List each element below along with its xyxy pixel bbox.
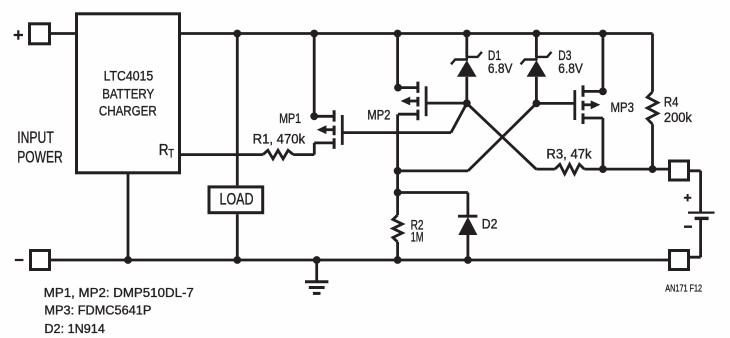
node rail-mp3: [599, 30, 607, 38]
wire bottom rail: [51, 259, 668, 262]
terminal box input +: [30, 24, 50, 44]
node rail-ground: [313, 256, 321, 264]
node r3-mp3: [599, 165, 607, 173]
svg-text:CHARGER: CHARGER: [99, 103, 157, 118]
svg-text:LOAD: LOAD: [220, 190, 254, 209]
svg-text:6.8V: 6.8V: [558, 60, 583, 76]
svg-text:LTC4015: LTC4015: [104, 68, 154, 83]
terminal box battery +: [670, 161, 689, 180]
wire top rail: [181, 32, 653, 35]
wire diagonal D1 node to R3: [467, 103, 537, 169]
LOAD block: [209, 187, 263, 213]
notes: [44, 285, 194, 336]
wire MP2 gate to D1 node: [427, 102, 466, 105]
node mp1 source: [310, 112, 318, 120]
wire rail to MP3 source: [602, 34, 605, 92]
LTC4015 charger block U1: [77, 14, 180, 173]
plus sign battery: [684, 194, 691, 201]
transistor MP2: [398, 82, 426, 121]
node rail-mp1: [310, 30, 318, 38]
node mp2 source: [394, 84, 402, 92]
node rail-r2: [394, 256, 402, 264]
node mp3 source: [599, 88, 607, 96]
minus sign input: [15, 259, 24, 261]
wire terminal to battery top: [690, 171, 701, 212]
node rail-load: [233, 30, 241, 38]
wire rail to MP2 source: [396, 34, 399, 88]
wire LOAD branch down: [236, 34, 239, 186]
zener D1: [451, 52, 482, 64]
transistor MP1: [314, 110, 342, 149]
wire node A to elbow: [398, 169, 468, 172]
node A mp2 drain: [394, 167, 402, 175]
node B d2 branch: [394, 189, 402, 197]
wire input+ to charger: [51, 32, 76, 35]
resistor R1: [263, 150, 293, 159]
labels: [99, 68, 157, 118]
node rail-charger: [124, 256, 132, 264]
svg-text:MP2: MP2: [367, 106, 390, 122]
svg-text:MP3: FDMC5641P: MP3: FDMC5641P: [44, 303, 151, 318]
node rail-d3: [533, 30, 541, 38]
resistor R2: [393, 215, 402, 242]
resistor R4: [647, 92, 657, 124]
wire MP2 drain down to R2: [396, 114, 399, 215]
wire diagonal to D1 node: [451, 103, 467, 132]
node d1 bottom: [463, 99, 471, 107]
svg-text:1M: 1M: [411, 229, 424, 245]
svg-text:POWER: POWER: [17, 148, 63, 166]
wire rail to MP1 source: [313, 34, 316, 117]
wire R2 to rail: [396, 242, 399, 260]
zener D3: [521, 52, 552, 64]
minus sign battery: [684, 225, 692, 227]
wire MP1 gate to crossover: [344, 131, 452, 134]
svg-text:D2: 1N914: D2: 1N914: [44, 321, 105, 336]
wire LOAD to bottom rail: [236, 214, 239, 260]
wire rail to D1: [465, 34, 468, 58]
wire charger bottom to rail: [127, 172, 130, 260]
svg-text:200k: 200k: [664, 109, 693, 125]
wire R4 to R3 wire: [651, 124, 654, 169]
wire RT pin: [181, 153, 263, 156]
wire node B to D2: [398, 193, 468, 217]
node d3 bottom: [533, 100, 541, 108]
svg-text:R: R: [159, 142, 169, 159]
svg-text:BATTERY: BATTERY: [102, 86, 154, 101]
wire rail to D3: [535, 34, 538, 58]
wire R3 to battery terminal: [584, 168, 668, 171]
node rail-d2: [464, 256, 472, 264]
wire D3 node to MP3 gate: [536, 102, 575, 105]
battery BT1: [688, 212, 715, 214]
node rail-mp2: [394, 30, 402, 38]
svg-text:MP3: MP3: [611, 99, 635, 115]
transistor MP3: [575, 85, 603, 124]
node rail-load-bottom: [233, 256, 241, 264]
svg-text:MP1, MP2: DMP510DL-7: MP1, MP2: DMP510DL-7: [44, 285, 194, 300]
svg-text:AN171 F12: AN171 F12: [665, 283, 702, 295]
svg-text:MP1: MP1: [279, 110, 301, 126]
wire battery bottom to terminal: [690, 220, 701, 257]
resistor R3: [555, 164, 584, 174]
svg-text:R1, 470k: R1, 470k: [253, 131, 306, 147]
node r3-r4: [649, 165, 657, 173]
wire diagonal elbow to D3 node: [468, 103, 536, 170]
svg-text:INPUT: INPUT: [17, 129, 54, 147]
wire rail corner to R4: [651, 34, 654, 92]
ground: [315, 260, 318, 281]
node rail-d1: [463, 30, 471, 38]
plus sign input: [14, 30, 23, 40]
svg-text:R3, 47k: R3, 47k: [546, 146, 592, 162]
diode D2: [458, 215, 477, 218]
terminal box input -: [31, 251, 50, 270]
svg-text:D2: D2: [482, 216, 498, 232]
wire R1 to MP1 drain: [293, 143, 314, 155]
wire D1 to node: [465, 77, 468, 104]
wire MP3 drain down: [602, 118, 605, 169]
svg-text:R4: R4: [664, 93, 679, 109]
svg-text:T: T: [168, 146, 174, 160]
wire D2 anode to rail: [466, 235, 469, 260]
svg-text:6.8V: 6.8V: [488, 60, 513, 76]
terminal box battery -: [670, 251, 689, 270]
wire D3 to node: [535, 77, 538, 104]
wire elbow to R3: [536, 168, 555, 171]
